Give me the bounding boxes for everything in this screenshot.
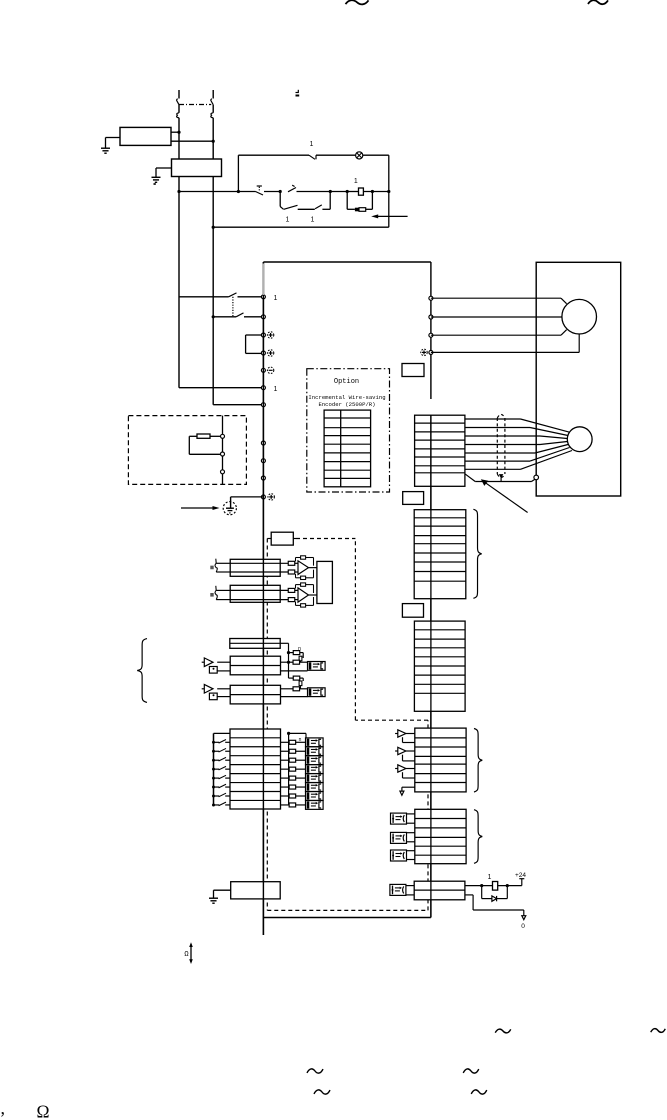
- svg-text:Encoder (2500P/R): Encoder (2500P/R): [318, 401, 375, 408]
- svg-text:1: 1: [354, 178, 358, 185]
- svg-text:+24: +24: [515, 872, 526, 879]
- svg-text:1: 1: [311, 217, 315, 224]
- svg-text:1: 1: [274, 295, 278, 302]
- svg-text:n: n: [298, 646, 301, 652]
- svg-text:,: ,: [1, 1098, 6, 1118]
- svg-text:0: 0: [521, 923, 525, 930]
- svg-text:Option: Option: [334, 378, 359, 386]
- svg-text:1: 1: [488, 874, 492, 881]
- svg-text:1: 1: [286, 217, 290, 224]
- svg-text:1: 1: [274, 386, 278, 393]
- svg-text:Ω: Ω: [37, 1101, 50, 1120]
- svg-text:1: 1: [310, 141, 314, 148]
- svg-text:Ω: Ω: [184, 951, 188, 959]
